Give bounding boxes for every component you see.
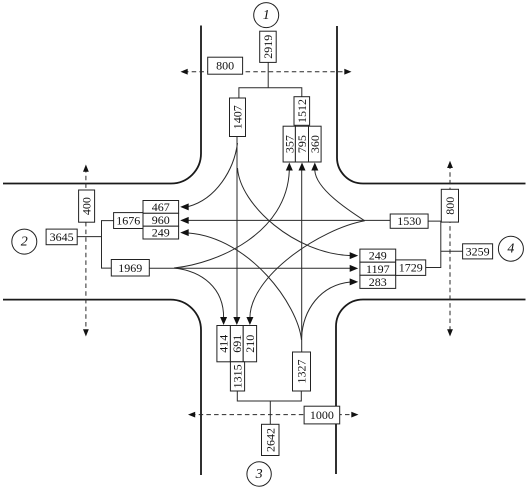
box 467 [143,200,179,214]
svg-text:1407: 1407 [231,105,245,129]
box 1327 [293,352,311,391]
box 691 [230,326,244,362]
svg-text:2919: 2919 [261,35,275,59]
flow north entering straight to 691 [236,137,238,319]
svg-text:1: 1 [263,8,270,23]
wire bracket north [239,88,302,99]
node circle 2 [12,229,37,254]
svg-text:1512: 1512 [295,99,309,123]
box 3259 [463,244,493,259]
wire junction to 3259 [441,250,463,252]
box 283 [360,275,396,289]
flow west entering straight to 1197 [149,267,351,269]
node circle 4 [498,236,523,261]
svg-text:249: 249 [152,226,170,240]
flow east entering straight to 960 [189,219,391,221]
road edge top-left [3,26,201,184]
box 1000 [304,406,340,424]
arrowheads into west exit group [180,203,189,236]
wire 3645 to junction [77,236,101,238]
svg-text:283: 283 [369,275,387,289]
node circle 3 [247,462,271,486]
wire bracket south [237,391,301,402]
svg-text:3259: 3259 [466,244,490,258]
wire 1530 to 3259 junction [426,221,441,267]
wire bracket west [102,221,114,269]
svg-text:1729: 1729 [399,261,423,275]
svg-text:1327: 1327 [295,360,309,384]
flow south left turn to west 249 [189,233,302,340]
box 1676 [114,213,143,229]
svg-text:2: 2 [21,235,28,250]
arrowheads into north exit group [286,163,319,171]
arrowheads into south exit group [220,317,253,325]
svg-text:4: 4 [507,242,514,257]
box 2919 [260,31,277,62]
box 960 [143,213,179,227]
box 800 east [441,189,458,222]
svg-text:400: 400 [80,197,94,215]
arrowheads into east exit group [350,252,359,285]
svg-text:691: 691 [230,335,244,353]
flow north left turn to east 249 [238,168,352,256]
svg-text:467: 467 [152,200,170,214]
svg-text:360: 360 [308,135,322,153]
svg-text:249: 249 [369,249,387,263]
svg-text:1530: 1530 [397,214,421,228]
svg-text:1315: 1315 [231,364,245,388]
svg-text:1969: 1969 [118,261,142,275]
node circle 1 [254,3,279,28]
dashed crossing north [181,69,352,75]
box 1530 [390,214,428,228]
wire stem from 2919 [267,63,269,88]
road edge top-right [337,26,526,184]
box 800 north [208,57,243,74]
box 2642 [262,424,280,455]
box 795 [295,126,309,162]
box 1407 [230,98,246,137]
dashed crossing east [447,161,453,337]
flow south entering straight to 795 [301,170,303,352]
svg-text:3: 3 [255,467,263,482]
svg-text:1197: 1197 [366,262,390,276]
svg-text:210: 210 [243,335,257,353]
box 400 [79,190,95,222]
flow east right turn to 360 [315,171,365,221]
svg-text:414: 414 [217,335,231,353]
svg-text:800: 800 [443,197,457,215]
flow west left turn to 357 [174,171,289,269]
flow south right turn to east 283 [302,282,351,338]
dashed crossing west [83,165,89,337]
box 249 west [143,226,179,240]
box 249 east [360,249,396,263]
wire stem to 2642 [269,401,271,425]
box 414 [217,326,231,362]
svg-text:1676: 1676 [116,214,140,228]
svg-text:1000: 1000 [310,408,334,422]
box 1969 [111,260,149,277]
svg-text:2642: 2642 [263,428,277,452]
box 360 [308,126,322,162]
flow east left turn to 210 [250,221,365,318]
svg-text:3645: 3645 [50,230,74,244]
box 1197 [360,262,396,276]
flow north right turn to 467 [189,143,238,207]
box 357 [282,126,296,162]
dashed crossing south [188,412,359,418]
flow west right turn to 414 [174,268,224,318]
box 1729 [396,260,426,276]
box 210 [243,326,257,362]
road edge bottom-left [3,300,201,475]
box 3645 [46,229,77,245]
svg-text:800: 800 [216,59,234,73]
road edge bottom-right [336,300,526,475]
box 1315 [230,362,244,391]
box 1512 [294,97,310,126]
